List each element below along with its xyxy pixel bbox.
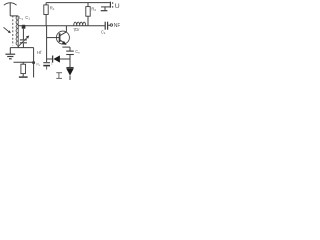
bottom left horizontal wire <box>10 47 33 49</box>
svg-text:U: U <box>115 3 120 10</box>
capacitor below diode junction <box>43 62 50 64</box>
ground bar top right <box>101 10 108 12</box>
lower supply wire <box>101 6 110 8</box>
wire down right of coil <box>33 48 35 78</box>
svg-text:Ck: Ck <box>101 30 106 36</box>
resistor R2 <box>87 3 89 7</box>
tank capacitor C stem <box>22 29 24 40</box>
transistor base bar <box>59 33 61 42</box>
supply terminal bar <box>109 2 111 8</box>
resistor R1 <box>45 3 47 5</box>
capacitor Ca to ground (I shape) <box>56 72 62 74</box>
variable arrow through tank capacitor <box>18 37 28 47</box>
diode D1 cathode bar <box>52 56 54 63</box>
variable-adjust arrow on coil <box>4 27 10 32</box>
Ce lower stem <box>69 55 71 59</box>
node dot <box>32 61 35 64</box>
vertical line from main wire down to diode row <box>46 26 48 62</box>
svg-text:Dr: Dr <box>75 27 80 32</box>
svg-text:C1: C1 <box>25 15 30 21</box>
D2 bottom stem <box>69 76 71 80</box>
svg-text:Rv: Rv <box>36 63 40 68</box>
diode D2 triangle <box>66 68 74 75</box>
collector lead <box>60 32 67 36</box>
svg-text:L1: L1 <box>19 15 23 21</box>
resistor R3 <box>22 62 24 64</box>
svg-text:NF: NF <box>114 23 120 29</box>
choke Dr bumps <box>74 22 86 25</box>
svg-text:R2: R2 <box>91 6 96 12</box>
coil bottom connection wire <box>17 45 19 47</box>
emitter wire to Ce <box>62 46 70 48</box>
diode row wire left <box>47 58 53 60</box>
inductor L1 (tuning coil, bumps left of axis) <box>16 16 18 45</box>
stem to ground <box>104 7 106 10</box>
main horizontal wire <box>18 25 105 27</box>
tank capacitor lower stem <box>22 43 24 47</box>
emitter lead with arrow <box>60 40 64 43</box>
svg-text:Ce: Ce <box>75 49 80 55</box>
wire to resistor R3 <box>14 61 34 63</box>
junction blob / coupling tap <box>22 25 26 29</box>
svg-text:Hf: Hf <box>37 50 42 55</box>
antenna <box>4 3 17 5</box>
coupling capacitor Ck plates <box>104 22 106 30</box>
svg-text:R1: R1 <box>50 5 55 11</box>
adjustable core dashed line <box>12 16 14 46</box>
top supply rail <box>46 2 110 4</box>
earth symbol <box>9 48 11 54</box>
tank capacitor C plates <box>20 39 27 41</box>
base wire <box>47 37 60 39</box>
output terminal circle <box>110 24 112 26</box>
terminal dots <box>112 2 114 4</box>
diode D2 bar <box>66 67 73 69</box>
wire after Ck <box>108 24 110 26</box>
diode row wire right <box>60 58 70 60</box>
diode D1 triangle <box>53 55 60 62</box>
ground bar under R3 <box>19 76 28 78</box>
transistor T circle <box>56 31 69 44</box>
capacitor Ce plates <box>66 50 74 52</box>
wire antenna to coil top <box>10 15 18 17</box>
wire down to D2 <box>69 59 71 67</box>
